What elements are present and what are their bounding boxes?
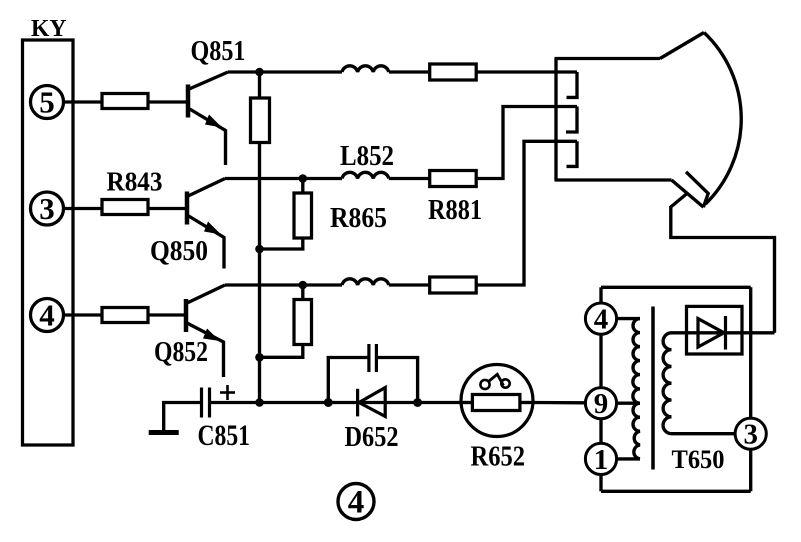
Q850 collector bbox=[187, 179, 225, 197]
transistor Q852 bbox=[184, 299, 189, 332]
center vertical resistor (below row1 node) bbox=[258, 72, 261, 98]
bottom wire bbox=[210, 401, 462, 404]
CRT bottom diagonal bbox=[672, 180, 704, 207]
svg-text:R652: R652 bbox=[471, 441, 526, 473]
CRT flare arc bbox=[704, 33, 741, 205]
svg-text:R843: R843 bbox=[107, 167, 163, 197]
CRT tube left edge bbox=[554, 59, 557, 181]
CRT top diagonal bbox=[660, 33, 704, 59]
cathode wire to rectifier bbox=[671, 194, 775, 333]
connector KY box bbox=[23, 40, 74, 445]
center vertical wire bbox=[258, 143, 261, 403]
wire resistor to Q851 base bbox=[148, 100, 188, 103]
resistor row1 (from pin5) bbox=[102, 94, 148, 109]
wire pin1 to primary bbox=[617, 457, 640, 460]
diode D652 bbox=[356, 389, 359, 417]
snubber capacitor loop bbox=[328, 358, 369, 403]
CRT pin2 hook bbox=[566, 107, 577, 133]
svg-text:D652: D652 bbox=[345, 421, 399, 453]
resistor row1 right bbox=[430, 64, 477, 80]
node dot D652 right bbox=[413, 398, 422, 407]
Q850 emitter arrow bbox=[204, 222, 221, 235]
CRT heater stroke bbox=[686, 172, 708, 207]
node row3 junction dot bbox=[299, 281, 308, 290]
Q852 emitter arrow bbox=[203, 329, 220, 342]
wire pin3 to resistor bbox=[64, 207, 103, 210]
R652 body bbox=[472, 395, 520, 411]
pin 3 transformer circle bbox=[735, 418, 766, 449]
snubber capacitor plates bbox=[367, 344, 370, 372]
wire R652 to pin9 bbox=[533, 401, 586, 405]
wire inductor to resistor row1 bbox=[389, 70, 430, 73]
CRT top edge bbox=[555, 57, 661, 60]
node row2 junction dot bbox=[299, 174, 308, 183]
svg-text:4: 4 bbox=[348, 485, 365, 521]
wire inductor to R881 bbox=[389, 177, 430, 180]
Q851 emitter arrow bbox=[205, 115, 222, 128]
T650 box left segments bbox=[599, 287, 602, 303]
svg-text:Q850: Q850 bbox=[150, 236, 208, 267]
node row1 junction dot bbox=[255, 68, 264, 77]
svg-text:R881: R881 bbox=[428, 194, 482, 226]
svg-text:4: 4 bbox=[39, 298, 55, 333]
transistor Q850 bbox=[185, 192, 190, 225]
Q850 emitter bbox=[187, 215, 224, 269]
rectifier through-wire bbox=[672, 331, 775, 334]
svg-text:L852: L852 bbox=[340, 140, 394, 172]
pin 5 circle bbox=[31, 86, 64, 119]
rectifier diode bbox=[698, 319, 724, 347]
wire row1 to inductor bbox=[228, 70, 342, 73]
figure number circle 4 bbox=[338, 484, 374, 520]
wire R881 to CRT pin2 bbox=[476, 107, 577, 179]
Q851 collector bbox=[188, 72, 228, 90]
svg-text:1: 1 bbox=[594, 444, 609, 476]
resistor below row3 node bbox=[301, 285, 304, 300]
rectifier diode box bbox=[687, 306, 743, 354]
pin 1 transformer circle bbox=[585, 443, 616, 474]
Q851 emitter bbox=[188, 108, 226, 165]
T650 box bottom bbox=[601, 490, 751, 493]
C851 polarity plus bbox=[220, 391, 235, 394]
T650 box right bbox=[749, 287, 752, 491]
svg-text:9: 9 bbox=[594, 388, 609, 420]
node R865 bottom dot bbox=[255, 245, 264, 254]
inductor row1 bbox=[342, 66, 389, 72]
svg-text:C851: C851 bbox=[198, 419, 251, 452]
ground bbox=[149, 430, 179, 435]
wire pin5 to resistor bbox=[64, 100, 103, 103]
CRT bottom edge bbox=[555, 178, 672, 181]
svg-text:3: 3 bbox=[743, 419, 758, 451]
pin 4 transformer circle bbox=[585, 303, 616, 334]
wire row3 to CRT pin3 bbox=[476, 141, 577, 285]
wire inductor to resistor row3 bbox=[389, 283, 430, 286]
T650 primary winding bbox=[633, 319, 640, 459]
wire resistor to Q850 base bbox=[148, 207, 187, 210]
resistor R865 bbox=[301, 179, 304, 194]
node dot bbox=[255, 353, 264, 362]
T650 secondary winding bbox=[663, 333, 671, 434]
Q852 emitter bbox=[186, 323, 224, 378]
node dot D652 left bbox=[324, 398, 333, 407]
resistor R881 bbox=[430, 171, 477, 187]
svg-text:Q852: Q852 bbox=[154, 337, 208, 368]
wire row3 bbox=[225, 283, 342, 286]
svg-text:4: 4 bbox=[594, 304, 609, 336]
wire row2 bbox=[225, 177, 342, 180]
resistor row3 bbox=[102, 308, 148, 323]
wire pin4 to primary bbox=[617, 317, 640, 320]
T650 core bbox=[651, 307, 655, 470]
wire pin4 to resistor bbox=[64, 313, 103, 316]
node dot center-vertical bottom bbox=[255, 398, 264, 407]
CRT pin1 hook bbox=[567, 72, 578, 97]
svg-text:T650: T650 bbox=[672, 445, 725, 474]
pin 3 circle bbox=[31, 192, 64, 225]
svg-text:KY: KY bbox=[31, 16, 67, 42]
wire resistor to Q852 base bbox=[148, 313, 186, 316]
transistor Q851 bbox=[186, 85, 191, 118]
svg-text:5: 5 bbox=[39, 85, 55, 120]
resistor R843 bbox=[102, 200, 148, 215]
inductor L852 bbox=[342, 172, 389, 178]
secondary bottom wire to pin3 bbox=[672, 432, 736, 435]
inductor row3 bbox=[342, 279, 389, 285]
wire to CRT pin1 bbox=[476, 70, 577, 73]
pin 4 circle bbox=[31, 299, 64, 332]
wire pin9 to primary tap bbox=[617, 402, 640, 405]
R652 squiggle mark bbox=[480, 380, 489, 389]
svg-text:3: 3 bbox=[39, 191, 55, 226]
svg-text:Q851: Q851 bbox=[191, 35, 246, 67]
capacitor C851 bbox=[200, 388, 203, 418]
CRT pin3 hook bbox=[567, 141, 578, 166]
svg-text:R865: R865 bbox=[330, 202, 387, 234]
Q852 collector bbox=[186, 285, 225, 304]
transformer T650 outer box top bbox=[601, 286, 751, 289]
resistor row3 right bbox=[430, 277, 477, 293]
pin 9 transformer circle bbox=[585, 388, 616, 419]
fusible resistor R652 circle bbox=[461, 365, 533, 437]
